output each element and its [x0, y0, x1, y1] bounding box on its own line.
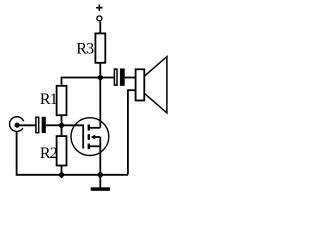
resistor R2	[57, 136, 67, 165]
wire R3 to drain node	[99, 63, 101, 77]
capacitor C2 plate right (solid)	[120, 68, 125, 85]
wire source/body down to ground rail	[99, 137, 101, 175]
transistor Q1 source connection	[90, 145, 101, 147]
svg-text:R3: R3	[76, 40, 94, 57]
node source ground junction	[97, 171, 104, 178]
wire jack shield to ground rail	[17, 131, 128, 174]
input jack center pin	[15, 123, 20, 128]
wire speaker return to ground rail	[128, 90, 136, 175]
transistor Q1 channel segment top	[88, 124, 90, 130]
node gate junction	[58, 122, 65, 129]
wire C2 to speaker	[125, 77, 136, 79]
transistor Q1 channel segment middle	[88, 134, 90, 140]
wire R1 bottom to gate node	[61, 116, 63, 126]
wire R2 bottom to ground rail	[61, 166, 63, 175]
speaker LS1 frame	[136, 69, 145, 100]
supply terminal circle	[97, 16, 102, 21]
wire gate node to R2	[61, 125, 63, 136]
capacitor C1 plate left	[36, 117, 39, 133]
transistor Q1 channel segment bottom	[88, 144, 90, 150]
transistor Q1 body arrow	[91, 135, 95, 140]
wire gate node to transistor gate	[62, 125, 84, 148]
wire top rail	[62, 78, 115, 85]
capacitor C1 plate right (solid)	[42, 117, 46, 133]
wire C1 to gate node	[46, 124, 62, 126]
node drain junction	[97, 74, 104, 81]
wire supply to R3	[99, 22, 101, 33]
speaker LS1 cone	[144, 57, 167, 113]
wire jack pin to C1	[17, 124, 36, 126]
svg-text:R1: R1	[40, 91, 58, 108]
input jack J1 outer ring	[10, 117, 25, 132]
node R2 ground junction	[58, 171, 65, 178]
svg-text:R2: R2	[40, 145, 58, 162]
resistor R1	[57, 86, 67, 115]
wire drain up to node	[99, 78, 101, 128]
supply plus symbol	[96, 5, 103, 11]
ground symbol	[99, 175, 101, 188]
transistor Q1 body circle	[71, 118, 109, 156]
capacitor C2 plate left	[114, 69, 117, 85]
transistor Q1 drain connection	[90, 127, 101, 129]
resistor R3	[95, 33, 105, 62]
